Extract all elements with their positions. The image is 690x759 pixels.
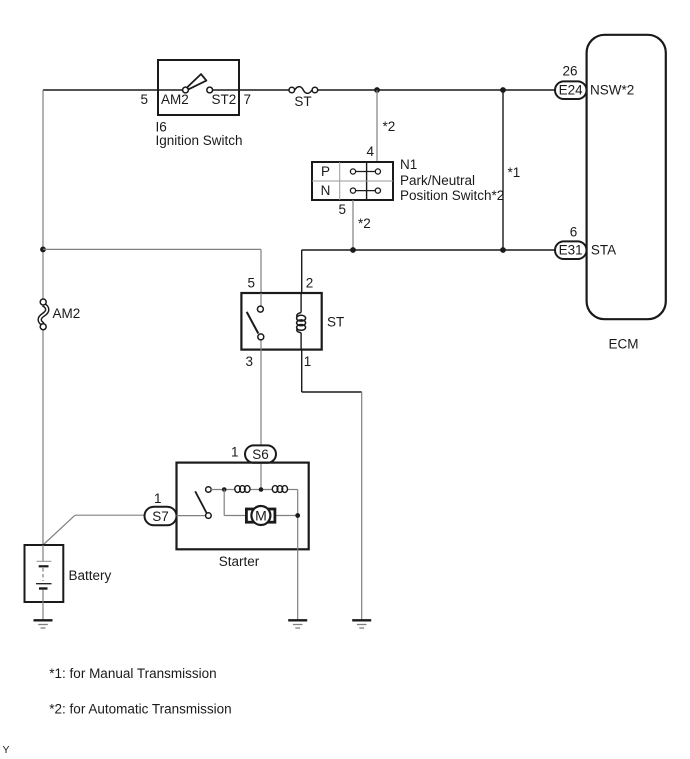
wire: *1 manual transmission bypass x=503 [502, 90, 504, 250]
wire: branch to motor left [224, 490, 246, 516]
wire: from junction (43,249.4) right to relay pin 5 [43, 249, 261, 293]
svg-text:7: 7 [244, 92, 252, 107]
ECM box [587, 35, 666, 319]
svg-text:ST2: ST2 [212, 92, 237, 107]
relay coil [297, 293, 306, 350]
svg-text:5: 5 [140, 92, 148, 107]
svg-text:Battery: Battery [69, 568, 112, 583]
node: junction (261,489.5) [259, 487, 264, 492]
node: junction (297.7,516.2) [295, 513, 300, 518]
svg-text:S6: S6 [252, 447, 269, 462]
ground (starter) [288, 620, 307, 628]
svg-text:S7: S7 [152, 509, 169, 524]
starter box [177, 463, 309, 550]
svg-text:Starter: Starter [219, 554, 260, 569]
wire: relay pin 1 to right-side ground run [302, 350, 362, 620]
svg-text:ECM: ECM [609, 337, 639, 352]
starter switch contacts [206, 487, 212, 519]
node: junction (353,250) [350, 247, 356, 253]
svg-text:*2: *2 [358, 216, 371, 231]
wire: coil end down to motor right junction [275, 490, 298, 550]
wire: horizontal STA run y=250 [302, 249, 556, 251]
wire: main top horizontal from battery branch to E24 [43, 89, 556, 91]
svg-text:5: 5 [338, 202, 346, 217]
wire: starter top run [211, 489, 298, 491]
svg-text:E24: E24 [559, 83, 584, 98]
starter coil 1 (pull-in) [235, 486, 250, 493]
svg-text:3: 3 [245, 354, 253, 369]
park/neutral switch N1 box [312, 162, 393, 200]
wire: starter ground wire below box [297, 549, 299, 619]
svg-text:1: 1 [304, 354, 312, 369]
svg-text:1: 1 [231, 445, 239, 460]
svg-text:P: P [321, 164, 330, 179]
svg-text:Ignition Switch: Ignition Switch [156, 133, 243, 148]
svg-text:AM2: AM2 [53, 306, 81, 321]
svg-text:NSW*2: NSW*2 [590, 83, 634, 98]
svg-text:1: 1 [154, 491, 162, 506]
svg-text:Park/Neutral: Park/Neutral [400, 173, 475, 188]
motor M [246, 506, 275, 525]
svg-text:ST: ST [327, 315, 344, 330]
ignition switch lever (wedge) [187, 74, 206, 89]
node: junction (224.2,489.5) [222, 487, 227, 492]
svg-text:*2: for Automatic Transmission: *2: for Automatic Transmission [49, 702, 231, 717]
battery cells [36, 545, 52, 602]
connector S7 [145, 507, 177, 526]
ground (battery) [34, 620, 53, 628]
svg-text:6: 6 [570, 225, 578, 240]
ground (relay pin 1 run) [352, 620, 371, 628]
connector E31 [555, 241, 587, 259]
svg-text:Position Switch*2: Position Switch*2 [400, 188, 504, 203]
svg-text:Y: Y [3, 744, 10, 756]
wire: relay pin 2 from STA run down into relay [301, 250, 303, 293]
wire: battery to S7 [43, 515, 144, 545]
battery box [25, 545, 64, 602]
wire: battery to ground [42, 602, 44, 620]
ignition switch I6 box [158, 60, 239, 115]
ignition switch contact circles [183, 87, 213, 93]
connector E24 [555, 81, 587, 99]
N1 P-row contacts [350, 169, 380, 174]
svg-text:2: 2 [306, 276, 314, 291]
svg-text:*2: *2 [383, 119, 396, 134]
relay switch lever [247, 312, 259, 334]
wire: left AM2 vertical from top wire to battery [42, 90, 44, 545]
wire: *2 from top wire down to N1 pin 4 [376, 90, 378, 162]
wire: relay pin 3 down to S6 [260, 350, 262, 446]
svg-text:AM2: AM2 [161, 92, 189, 107]
connector S6 [245, 445, 276, 462]
svg-text:M: M [255, 507, 267, 523]
svg-text:5: 5 [247, 276, 255, 291]
node: junction (503,250) [500, 247, 506, 253]
fuse AM2 [40, 299, 48, 330]
svg-text:4: 4 [366, 144, 374, 159]
relay ST box [241, 293, 321, 350]
node: junction (43,249.4) [40, 247, 46, 253]
svg-text:N: N [321, 183, 331, 198]
relay switch contacts [257, 293, 263, 350]
starter switch lever [195, 491, 206, 513]
wire: S6 into starter box [260, 463, 262, 490]
starter coil 2 (hold-in) [272, 486, 287, 493]
svg-text:ST: ST [294, 94, 311, 109]
fuse ST [289, 87, 318, 94]
wire: N1 pin 5 down to STA run [352, 200, 354, 250]
svg-text:STA: STA [591, 243, 616, 258]
svg-text:E31: E31 [559, 243, 583, 258]
svg-text:N1: N1 [400, 157, 417, 172]
svg-text:26: 26 [562, 64, 577, 79]
wire: S7 into starter switch [177, 515, 206, 517]
node: junction top at x=377 [374, 87, 380, 93]
node: junction top at x=503 [500, 87, 506, 93]
N1 N-row contacts [350, 188, 380, 193]
svg-text:*1: *1 [508, 165, 521, 180]
svg-text:*1: for Manual Transmission: *1: for Manual Transmission [49, 666, 216, 681]
